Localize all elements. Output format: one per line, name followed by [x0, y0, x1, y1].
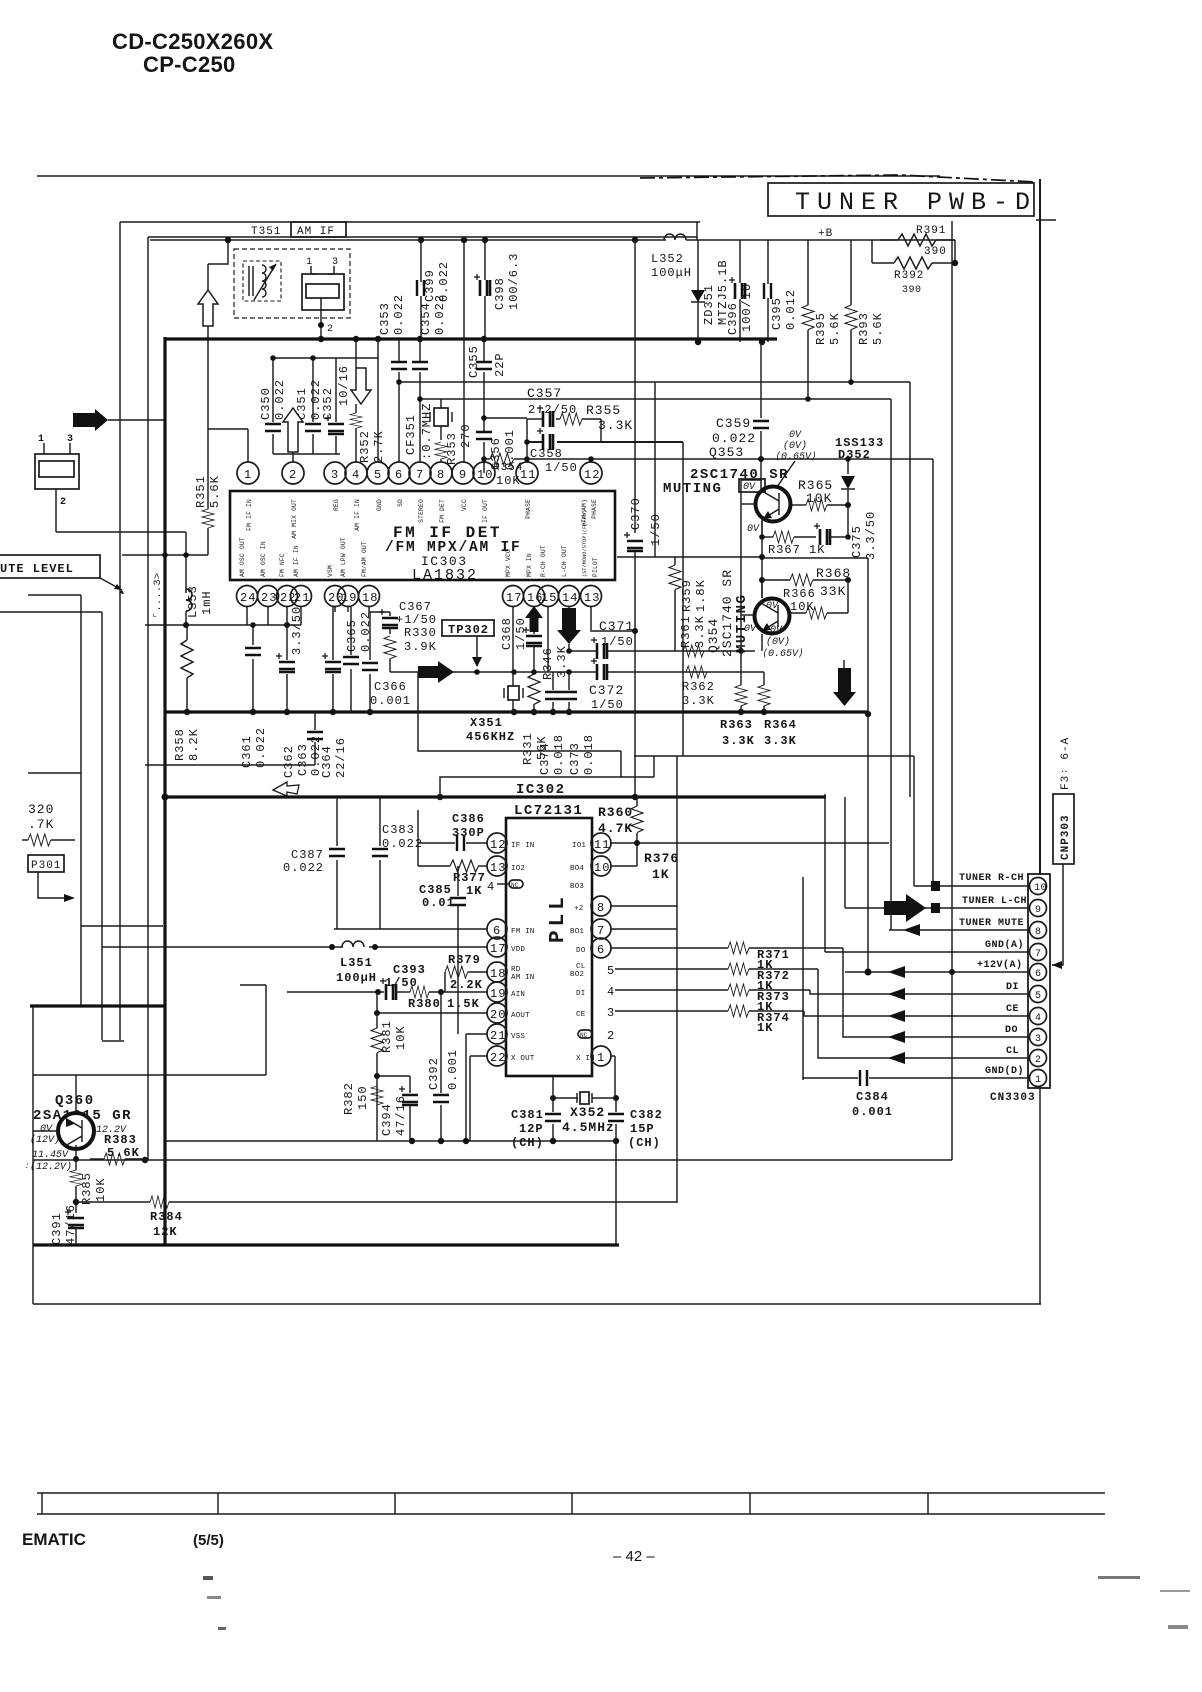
svg-text:C372: C372	[589, 683, 624, 698]
svg-text:7: 7	[1035, 949, 1042, 960]
svg-text:7: 7	[416, 468, 424, 482]
CNP303 boxed label	[1053, 794, 1074, 864]
svg-text:1: 1	[1035, 1075, 1042, 1086]
frame left vertical x120	[119, 222, 121, 1040]
svg-text:47/16: 47/16	[64, 1204, 78, 1245]
line y651 muting	[569, 650, 597, 652]
D352 1SS133 diode	[835, 436, 884, 537]
svg-text:DI: DI	[1006, 982, 1019, 993]
boxed 0V	[739, 479, 765, 493]
R330 3.9K	[384, 626, 437, 672]
svg-text:CD-C250X260X: CD-C250X260X	[112, 29, 273, 54]
R351 5.6K	[194, 429, 222, 555]
svg-text:1K: 1K	[652, 867, 670, 882]
frame left vertical x148	[147, 237, 149, 1160]
svg-text:3.9K: 3.9K	[404, 640, 437, 654]
svg-text:18: 18	[362, 591, 378, 605]
svg-text:3: 3	[332, 257, 339, 268]
svg-text:0.022: 0.022	[359, 611, 373, 652]
svg-text:R355: R355	[586, 403, 621, 418]
svg-text:3: 3	[1035, 1034, 1042, 1045]
svg-text:+B: +B	[818, 228, 833, 240]
line y765	[145, 764, 315, 766]
svg-text:390: 390	[902, 285, 922, 296]
svg-text:TP302: TP302	[448, 623, 489, 637]
pin18 jog to C367 column	[369, 607, 390, 616]
up arrow pin16	[525, 606, 543, 634]
svg-text:456KHZ: 456KHZ	[466, 730, 515, 744]
svg-text:⌜....3>: ⌜....3>	[153, 572, 164, 618]
wire +12V(A)	[845, 971, 1028, 973]
svg-text:2SC1740 SR: 2SC1740 SR	[720, 569, 735, 657]
svg-text:SD: SD	[397, 499, 404, 507]
svg-text:2: 2	[60, 497, 67, 508]
C391 47/16	[50, 1204, 84, 1245]
thick line y1006	[30, 1004, 165, 1007]
svg-text:18: 18	[490, 967, 506, 981]
svg-text:R382: R382	[342, 1082, 356, 1115]
C372 1/50 series cap	[589, 658, 624, 712]
svg-text:VSM: VSM	[327, 565, 334, 577]
svg-text:0.01: 0.01	[422, 896, 455, 910]
svg-text:.7K: .7K	[28, 817, 54, 832]
svg-text:BO4: BO4	[570, 865, 584, 873]
svg-text:GND: GND	[376, 499, 383, 511]
svg-text:3.3K: 3.3K	[764, 734, 797, 748]
svg-text:R393: R393	[857, 312, 871, 345]
vertical x266	[265, 985, 267, 1075]
X351 456KHZ resonator pin17	[466, 607, 523, 744]
rail y1141	[164, 1140, 358, 1142]
R372 1K on CL line	[615, 963, 818, 993]
svg-text:10K: 10K	[806, 491, 832, 506]
C359 0.022	[712, 342, 769, 459]
thick rail y1245	[33, 1243, 619, 1246]
vertical x677	[676, 756, 678, 1203]
svg-text:C395: C395	[770, 297, 784, 330]
svg-text:CE: CE	[1006, 1004, 1019, 1015]
svg-text:AM OSC OUT: AM OSC OUT	[239, 537, 246, 577]
svg-text:0V: 0V	[766, 601, 779, 612]
svg-text:2: 2	[327, 324, 334, 335]
svg-text:R376: R376	[644, 851, 679, 866]
top rule line	[37, 175, 940, 177]
IC303 bottom pin name labels	[239, 510, 599, 577]
svg-text:AM LPW OUT: AM LPW OUT	[340, 537, 347, 577]
line y459 node	[758, 456, 764, 462]
svg-text:22/16: 22/16	[334, 737, 348, 778]
wire y773	[28, 772, 81, 774]
svg-text:C365: C365	[345, 619, 359, 652]
C396 electrolytic	[726, 240, 754, 342]
pin9 VCC column	[463, 240, 465, 462]
svg-text:AM IF IN: AM IF IN	[354, 499, 361, 531]
IC303 top pin name labels	[246, 499, 598, 539]
svg-text:+2: +2	[574, 905, 583, 913]
svg-text:2: 2	[607, 1029, 615, 1043]
svg-text:0.001: 0.001	[446, 1049, 460, 1090]
svg-text:PLL: PLL	[547, 893, 570, 943]
svg-text:STEREO: STEREO	[418, 499, 425, 523]
left horiz y612	[0, 611, 102, 613]
footer dividers	[42, 1493, 928, 1514]
svg-text:CN3303: CN3303	[990, 1092, 1036, 1104]
svg-text:0.001: 0.001	[370, 694, 411, 708]
thick bus y712	[165, 710, 868, 713]
svg-text:C352: C352	[321, 387, 335, 420]
svg-text:C385: C385	[419, 883, 452, 897]
svg-text:C373: C373	[568, 742, 582, 775]
0V annotations lower	[762, 625, 804, 660]
svg-text:6: 6	[597, 943, 605, 957]
line y756	[634, 755, 914, 757]
svg-text:R366: R366	[783, 587, 816, 601]
svg-text:AM OSC IN: AM OSC IN	[260, 541, 267, 577]
transistor Q353	[756, 487, 791, 522]
svg-text:C363: C363	[296, 743, 310, 776]
crystal X352	[550, 1092, 619, 1135]
svg-text:C368: C368	[500, 617, 514, 650]
wire TUNER L-CH	[845, 907, 1028, 909]
FM IN line	[334, 928, 487, 930]
CF351 filter	[404, 399, 452, 460]
voltage annotations	[24, 1124, 127, 1173]
svg-text:L-CH OUT: L-CH OUT	[561, 545, 568, 577]
R382 150	[342, 1082, 383, 1115]
svg-text:R384: R384	[150, 1210, 183, 1224]
svg-text:100/6.3: 100/6.3	[507, 253, 521, 310]
svg-text:6: 6	[493, 924, 501, 938]
svg-text:1/50: 1/50	[385, 976, 418, 990]
left lower border x33	[32, 1006, 34, 1304]
svg-text:3.3K: 3.3K	[722, 734, 755, 748]
C358 1/50 on thick line	[530, 428, 578, 475]
svg-text:21: 21	[294, 591, 310, 605]
R379 2.2K pin18	[445, 953, 487, 992]
svg-text:(CH): (CH)	[511, 1136, 544, 1150]
R391 390	[880, 225, 955, 258]
svg-text:C386: C386	[452, 812, 485, 826]
Q360 base line	[33, 1130, 58, 1132]
frame top edge	[120, 221, 700, 223]
svg-text:PHASE: PHASE	[525, 499, 532, 519]
svg-text:R354: R354	[493, 462, 523, 474]
Q360 collector riser	[75, 1075, 77, 1113]
svg-text:VDD: VDD	[511, 946, 525, 954]
svg-text:5.6K: 5.6K	[208, 475, 222, 508]
svg-text:AIN: AIN	[511, 991, 525, 999]
footer table thin line	[37, 1492, 1105, 1494]
svg-text:13: 13	[584, 591, 600, 605]
R393 5.6K	[845, 240, 885, 385]
svg-text:11: 11	[520, 468, 536, 482]
wire CE	[804, 1011, 1028, 1016]
svg-text:3.3/50: 3.3/50	[864, 511, 878, 560]
R353 270	[435, 423, 473, 465]
svg-text:1: 1	[244, 468, 252, 482]
svg-text:0.012: 0.012	[784, 289, 798, 330]
line y926	[81, 925, 163, 927]
R363 3.3K	[720, 651, 755, 748]
svg-text:0V: 0V	[744, 624, 757, 635]
svg-text:0V: 0V	[40, 1124, 53, 1135]
IC302 body	[506, 818, 592, 1076]
thick mute feed y558	[762, 557, 868, 559]
IC303 top pins 1-12	[237, 462, 602, 484]
svg-text:C393: C393	[393, 963, 426, 977]
svg-text:15P: 15P	[630, 1122, 655, 1136]
svg-text:R351: R351	[194, 475, 208, 508]
svg-text:100μH: 100μH	[651, 266, 692, 280]
black arrow into frame (left)	[73, 409, 108, 431]
R355 3.3K	[560, 403, 633, 442]
C399 cap	[417, 240, 451, 340]
svg-text:R364: R364	[764, 718, 797, 732]
svg-text:2.2K: 2.2K	[450, 978, 483, 992]
svg-text:0.001: 0.001	[852, 1105, 893, 1119]
svg-text:VSS: VSS	[511, 1033, 525, 1041]
svg-text:NC: NC	[511, 882, 519, 889]
svg-text:DO: DO	[1005, 1025, 1018, 1036]
R364 3.3K	[758, 672, 797, 748]
R374 1K on CE line	[615, 1005, 804, 1035]
R361 3.3K on y651	[679, 615, 707, 657]
line y555	[122, 554, 208, 556]
big black arrow L-CH	[884, 894, 926, 922]
transistor Q354	[755, 599, 790, 634]
chain line above tuner box	[640, 175, 1035, 182]
svg-text:(0V): (0V)	[783, 440, 807, 452]
svg-text:23: 23	[261, 591, 277, 605]
svg-text:Q360: Q360	[55, 1093, 95, 1109]
R384 12K line	[76, 1196, 677, 1239]
zener D351	[691, 240, 730, 342]
vertical x868	[867, 558, 869, 972]
svg-text:5.6K: 5.6K	[871, 312, 885, 345]
R360 4.7K	[598, 797, 643, 866]
C356 0.001	[476, 415, 517, 473]
svg-text:F3꞉ 6-A: F3꞉ 6-A	[1060, 737, 1072, 790]
thick line y798 left stub	[162, 794, 169, 801]
svg-text:0.022: 0.022	[382, 837, 423, 851]
svg-text:+1/50: +1/50	[396, 613, 437, 627]
svg-text:AOUT: AOUT	[511, 1012, 530, 1020]
svg-text:⟨0.65V⟩: ⟨0.65V⟩	[762, 648, 804, 660]
svg-text:C362: C362	[282, 745, 296, 778]
bus dots	[184, 709, 871, 717]
svg-text:15: 15	[541, 591, 557, 605]
inductor L352	[651, 234, 692, 280]
svg-text:6: 6	[1035, 969, 1042, 980]
svg-text:3.3K: 3.3K	[693, 615, 707, 648]
IC303 bottom pins 24-13	[237, 586, 602, 607]
svg-text:P301: P301	[31, 860, 61, 872]
svg-text:19: 19	[490, 987, 506, 1001]
svg-text:CL: CL	[576, 963, 586, 971]
svg-text:1/50: 1/50	[601, 635, 634, 649]
svg-text:1/50: 1/50	[591, 698, 624, 712]
svg-text:8: 8	[437, 468, 445, 482]
line y454	[273, 453, 340, 455]
node +B at T351	[225, 237, 231, 243]
svg-text:0V: 0V	[743, 482, 756, 493]
mute drive line y557	[617, 556, 763, 558]
C366 0.001	[362, 612, 411, 712]
svg-text:20: 20	[490, 1008, 506, 1022]
svg-text:MPX IN: MPX IN	[526, 553, 533, 577]
svg-text:0.022: 0.022	[712, 431, 756, 446]
svg-text:R353: R353	[445, 432, 459, 465]
footer table thick line	[37, 1513, 1105, 1515]
C353 cap pin6 column	[391, 339, 407, 462]
svg-text:TUNER PWB-D: TUNER PWB-D	[795, 188, 1037, 217]
frame inner top edge	[148, 236, 697, 238]
svg-text:FM DET: FM DET	[439, 499, 446, 523]
svg-text:2: 2	[1035, 1055, 1042, 1066]
svg-text:⟨0.65V⟩: ⟨0.65V⟩	[775, 451, 817, 463]
svg-text:2: 2	[289, 468, 297, 482]
AOUT line pin20	[375, 1012, 487, 1014]
svg-text:4: 4	[352, 468, 360, 482]
svg-text:C381: C381	[511, 1108, 544, 1122]
svg-text:10: 10	[594, 861, 610, 875]
vertical x914	[913, 756, 915, 886]
svg-text:C382: C382	[630, 1108, 663, 1122]
R371 1K on DO line	[611, 942, 843, 972]
resistor 320 .7K	[22, 802, 75, 846]
svg-text:3: 3	[67, 434, 74, 445]
svg-text:IF IN: IF IN	[511, 842, 535, 850]
C361 0.022	[240, 622, 268, 768]
svg-text:AM IF IN: AM IF IN	[293, 545, 300, 577]
svg-text:C366: C366	[374, 680, 407, 694]
svg-text:5.6K: 5.6K	[107, 1146, 140, 1160]
C395 cap	[764, 240, 798, 342]
svg-text:17: 17	[490, 942, 506, 956]
+B rail	[150, 239, 666, 241]
svg-text:(12V): (12V)	[30, 1134, 60, 1146]
svg-text:– 42 –: – 42 –	[613, 1548, 655, 1565]
svg-text:10: 10	[1034, 883, 1047, 894]
svg-text:X352: X352	[570, 1105, 605, 1120]
C362 3.3/50	[276, 606, 304, 778]
line y1041	[102, 1040, 124, 1042]
Q354 base link	[741, 614, 755, 616]
svg-text:5.6K: 5.6K	[828, 312, 842, 345]
thick vertical bus x165	[163, 337, 166, 1245]
svg-text:4.5MHz: 4.5MHz	[562, 1120, 615, 1135]
R367 1K	[762, 521, 825, 557]
svg-text:8.2K: 8.2K	[187, 728, 201, 761]
svg-text:C383: C383	[382, 823, 415, 837]
svg-text:8: 8	[597, 901, 605, 915]
svg-text:CE: CE	[576, 1011, 586, 1019]
svg-text:C367: C367	[399, 600, 432, 614]
svg-text:GND(D): GND(D)	[985, 1065, 1024, 1077]
svg-text:(ST/MONO/STOP)(FM/AM): (ST/MONO/STOP)(FM/AM)	[582, 510, 588, 577]
wire TUNER MUTE	[889, 929, 1028, 931]
C394 47/16	[377, 1076, 418, 1141]
svg-text:R363: R363	[720, 718, 753, 732]
C355 22P	[467, 339, 507, 432]
svg-text:AM IF: AM IF	[297, 226, 335, 238]
wire DI	[810, 990, 1028, 994]
R373 1K on DI line	[615, 984, 810, 1014]
svg-text:Q353: Q353	[709, 445, 744, 460]
stub y418	[484, 417, 527, 419]
AM OSC line y625	[145, 624, 301, 626]
svg-text:R330: R330	[404, 626, 437, 640]
svg-text:1.8K: 1.8K	[694, 579, 708, 612]
X IN wire	[611, 1056, 615, 1098]
op-amp IC303 body	[230, 491, 615, 580]
MUTE LEVEL box	[0, 555, 124, 594]
svg-text:C384: C384	[856, 1090, 889, 1104]
svg-text:EMATIC: EMATIC	[22, 1530, 86, 1549]
svg-text:T351: T351	[251, 226, 281, 238]
filter component left edge	[35, 434, 79, 532]
R383 5.6K	[90, 1133, 148, 1165]
svg-text:0.022: 0.022	[433, 294, 447, 335]
IC302 right pins	[591, 833, 615, 1066]
svg-text:33K: 33K	[820, 584, 846, 599]
wire DO	[843, 948, 1028, 1037]
svg-text:12: 12	[490, 838, 506, 852]
wire GND(A)	[825, 951, 1028, 953]
svg-text:CP-C250: CP-C250	[143, 52, 236, 77]
svg-text:R362: R362	[682, 680, 715, 694]
C352 10/16 electrolytic	[321, 358, 351, 454]
line y429 to pin1	[208, 429, 248, 462]
C367 +1/50	[379, 600, 437, 634]
arrow line	[108, 419, 165, 421]
C393 1/50 + R380 on AIN line	[287, 963, 487, 1011]
bus node dots	[318, 336, 324, 342]
svg-text:TUNER L-CH: TUNER L-CH	[962, 896, 1027, 907]
Q354 labels vertical	[706, 569, 750, 657]
TP302	[442, 620, 494, 667]
svg-text:4: 4	[607, 985, 615, 999]
svg-text:R385: R385	[80, 1172, 94, 1205]
Q353 emitter drop	[761, 520, 763, 598]
svg-text:9: 9	[1035, 905, 1042, 916]
C383 0.022	[372, 797, 423, 929]
svg-text:REG: REG	[333, 499, 340, 511]
svg-text:BO3: BO3	[570, 883, 584, 891]
wire TUNER R-CH	[914, 885, 1028, 887]
svg-text:R392: R392	[894, 270, 924, 282]
corner vertical x891	[890, 399, 892, 930]
svg-text:R352: R352	[358, 430, 372, 463]
line y1075 collector	[33, 1074, 266, 1076]
svg-text:0.022: 0.022	[309, 735, 323, 776]
svg-text:DI: DI	[576, 990, 585, 998]
TUNER PWB-D title box	[768, 183, 1037, 217]
C374 0.018 pin15	[538, 607, 566, 775]
Q353 collector stub	[760, 459, 762, 490]
C353 label	[378, 294, 406, 335]
svg-text:+12V(A): +12V(A)	[977, 959, 1023, 971]
R377 1K series pin13	[418, 843, 487, 898]
thick vertical x825	[824, 794, 826, 952]
R352 2.7K column pin4	[350, 336, 386, 463]
svg-text:4.7K: 4.7K	[598, 821, 633, 836]
svg-text:21: 21	[490, 1029, 506, 1043]
row line y382	[399, 381, 910, 383]
svg-text:4: 4	[1035, 1013, 1042, 1024]
svg-text:NC: NC	[580, 1032, 588, 1039]
svg-text:UTE LEVEL: UTE LEVEL	[0, 562, 74, 576]
